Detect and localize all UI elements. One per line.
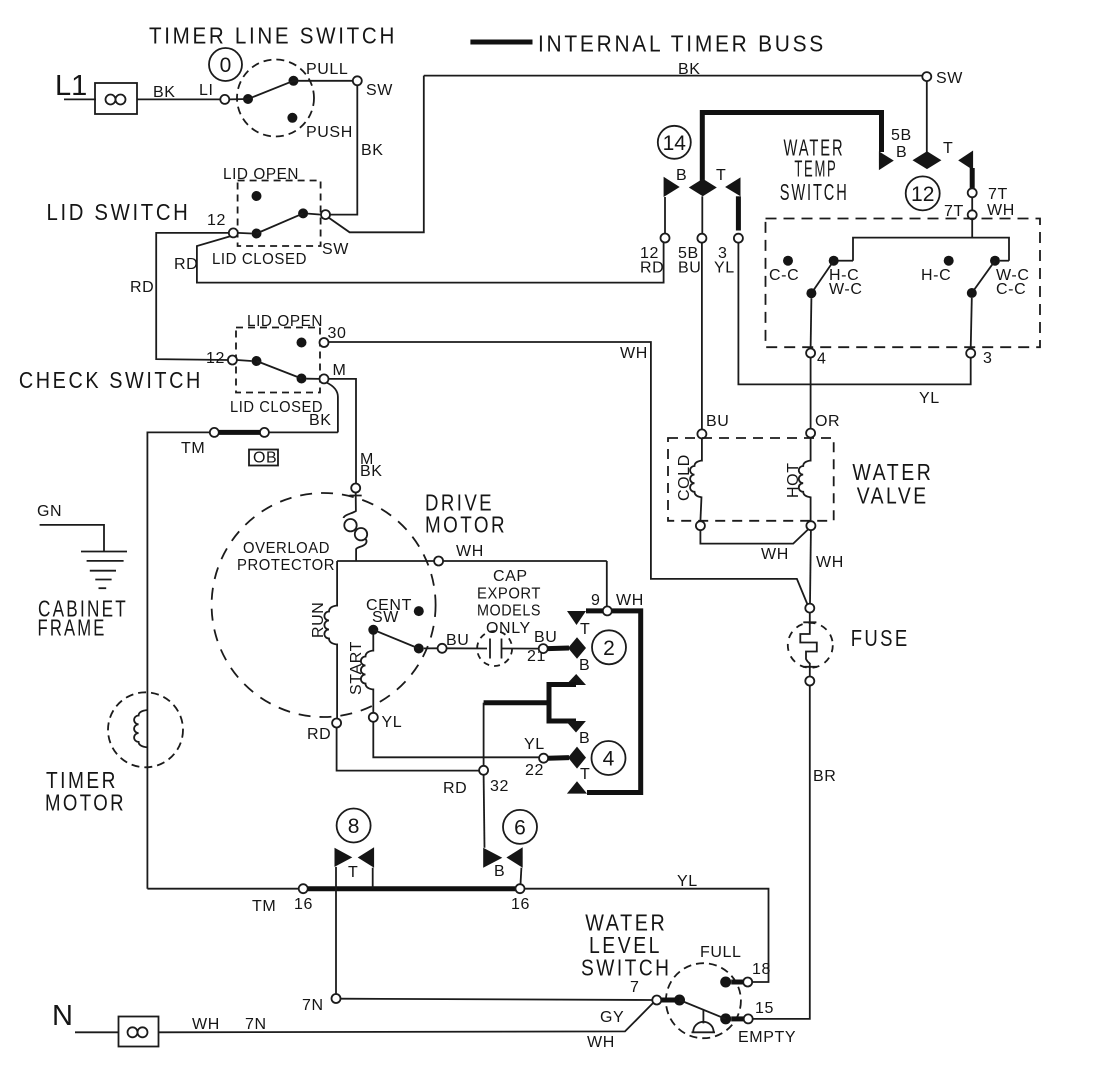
- node 22: [539, 754, 548, 763]
- label FUSE: [851, 625, 910, 651]
- label T conn12: [943, 140, 953, 157]
- svg-text:B: B: [676, 167, 687, 184]
- label RD left riser: [130, 279, 154, 296]
- label LID CLOSED (lid switch): [212, 251, 307, 268]
- svg-text:YL: YL: [919, 390, 940, 407]
- node M check switch: [320, 374, 329, 383]
- wire moving contact to SW node: [308, 214, 321, 215]
- node LI: [220, 95, 229, 104]
- label WH 7T: [987, 202, 1015, 219]
- circled 4: [592, 741, 626, 775]
- lid switch dashed box: [238, 181, 321, 247]
- wire WH right side down to node 9: [606, 561, 608, 607]
- label 32: [490, 778, 509, 795]
- label LID OPEN (check switch): [247, 313, 323, 330]
- svg-text:BU: BU: [706, 413, 729, 430]
- wire right bottom contact to node 3: [971, 298, 972, 349]
- water temp left switch arm: [811, 261, 833, 294]
- wire HOT coil to bottom node: [810, 497, 812, 522]
- svg-text:M: M: [333, 362, 347, 379]
- svg-text:12: 12: [207, 212, 226, 229]
- wire conn14 pin 5B lead: [701, 196, 703, 233]
- svg-text:22: 22: [525, 762, 544, 779]
- label 7: [630, 979, 640, 996]
- node 5B BU conn14: [697, 234, 706, 243]
- node 7N: [332, 994, 341, 1003]
- label WH (check switch wire): [620, 345, 648, 362]
- label SW (lid switch): [322, 241, 349, 258]
- svg-text:MOTOR: MOTOR: [425, 512, 507, 538]
- wire N lead: [75, 1031, 119, 1033]
- svg-text:7N: 7N: [302, 997, 324, 1014]
- wire node 4 to water valve OR: [810, 358, 812, 429]
- node BU water valve: [697, 429, 706, 438]
- label OVERLOAD PROTECTOR: [237, 540, 335, 574]
- wire top wire stub to right switch contact: [1000, 260, 1009, 262]
- wire BK from plug to node LI: [137, 98, 220, 100]
- svg-text:BK: BK: [309, 412, 332, 429]
- wire TM horizontal: [147, 432, 338, 888]
- title WATER LEVEL SWITCH: [581, 910, 672, 981]
- node WH motor top: [434, 557, 443, 566]
- node BU capacitor left: [438, 644, 447, 653]
- label 7T upper: [988, 186, 1008, 203]
- node water valve bottom right: [806, 521, 815, 530]
- label YL motor: [382, 714, 403, 731]
- svg-text:SWITCH: SWITCH: [780, 179, 849, 205]
- water temp inner top wire: [853, 238, 1009, 261]
- label 3: [983, 350, 993, 367]
- svg-text:7: 7: [630, 979, 640, 996]
- label BR: [813, 768, 836, 785]
- svg-text:5B: 5B: [891, 127, 912, 144]
- label T connector 2: [580, 621, 590, 638]
- node 12 lid switch: [229, 228, 238, 237]
- svg-text:BR: BR: [813, 768, 836, 785]
- water valve dashed box: [668, 438, 834, 521]
- legend text INTERNAL TIMER BUSS: [538, 31, 826, 57]
- label B connector 2: [579, 657, 590, 674]
- water temp left switch bottom contact: [806, 288, 816, 298]
- wire BU node to capacitor: [447, 647, 487, 649]
- thick buss node16L to node16R: [308, 886, 516, 891]
- CENT SW arm: [373, 630, 419, 649]
- timer motor dashed circle: [108, 692, 183, 767]
- connector 8 right triangle: [358, 847, 374, 867]
- wire COLD coil to bottom node: [700, 497, 701, 522]
- svg-text:WH: WH: [620, 345, 648, 362]
- svg-text:TEMP: TEMP: [794, 156, 837, 182]
- svg-text:RD: RD: [307, 726, 331, 743]
- wire GY node 7N to node 7: [341, 999, 653, 1000]
- wire moving contact to node M: [307, 378, 320, 380]
- wire RD lid node12 diagonal to conn14 pin12: [197, 236, 664, 282]
- wire conn14 pin 3 lead (thick): [736, 196, 741, 230]
- label T connector 8: [348, 864, 358, 881]
- wire WH 7N bottom run: [159, 1003, 653, 1032]
- wire OR node into HOT coil: [810, 438, 812, 462]
- svg-text:12: 12: [206, 350, 225, 367]
- svg-text:W-C: W-C: [829, 281, 863, 298]
- node 16 left: [299, 884, 308, 893]
- svg-text:16: 16: [511, 896, 530, 913]
- label 7N: [302, 997, 324, 1014]
- label BK: [153, 84, 176, 101]
- wire left bottom contact to node 4: [810, 298, 813, 348]
- node M-BK: [351, 484, 360, 493]
- label 7N bottom: [245, 1016, 267, 1033]
- label LID CLOSED check switch: [230, 399, 323, 416]
- RUN winding coil: [324, 606, 337, 645]
- connector 12 right triangle T: [958, 151, 973, 171]
- svg-text:T: T: [580, 766, 590, 783]
- connector plug N (box with two circles): [119, 1017, 159, 1047]
- svg-text:PUSH: PUSH: [306, 124, 353, 141]
- ground cabinet frame: [81, 552, 127, 589]
- wire L1 lead: [64, 98, 96, 100]
- label PUSH: [306, 124, 353, 141]
- svg-text:2: 2: [603, 637, 615, 660]
- node fuse top: [805, 604, 814, 613]
- label BK under lid closed: [309, 412, 332, 429]
- wire check node12 to common: [237, 360, 252, 361]
- connector 8 left triangle: [335, 848, 353, 867]
- node 12 check switch: [228, 356, 237, 365]
- node 7: [652, 996, 661, 1005]
- svg-text:YL: YL: [524, 736, 545, 753]
- HOT solenoid coil: [799, 461, 811, 498]
- svg-text:N: N: [52, 1000, 73, 1032]
- water temp switch dashed box: [766, 219, 1041, 348]
- title WATER VALVE: [852, 459, 933, 509]
- CENT SW pivot contact: [368, 625, 378, 635]
- node YL motor: [369, 713, 378, 722]
- wire 7T into water temp switch: [971, 219, 973, 237]
- wire node 32 to bracket: [483, 703, 485, 766]
- capacitor plates: [490, 639, 502, 659]
- svg-text:T: T: [348, 864, 358, 881]
- label WH near water level: [587, 1034, 615, 1051]
- wire LI node to pivot: [229, 98, 248, 100]
- connector 4 diamond: [568, 747, 586, 769]
- label T connector 14: [716, 167, 726, 184]
- label YL connector 4: [524, 736, 545, 753]
- lid switch common contact: [252, 229, 262, 239]
- svg-text:CAP: CAP: [493, 568, 528, 585]
- svg-text:BU: BU: [678, 260, 701, 277]
- node 15: [744, 1014, 753, 1023]
- wire CENT SW pivot down to START coil: [372, 635, 374, 652]
- title CABINET FRAME: [38, 596, 129, 641]
- svg-text:WH: WH: [616, 592, 644, 609]
- svg-text:9: 9: [591, 592, 601, 609]
- node 3 YL conn14: [734, 234, 743, 243]
- label BU water valve: [706, 413, 729, 430]
- svg-text:YL: YL: [714, 260, 735, 277]
- wire between 7T nodes: [971, 197, 973, 210]
- water level pivot contact: [674, 995, 685, 1006]
- wire BK from SW down to lid switch: [330, 85, 357, 214]
- lid switch moving contact: [298, 208, 308, 218]
- svg-text:32: 32: [490, 778, 509, 795]
- contact C-C: [783, 256, 793, 266]
- svg-text:BK: BK: [678, 61, 701, 78]
- label 21: [527, 648, 546, 665]
- svg-text:RUN: RUN: [310, 602, 327, 638]
- label BU left: [446, 632, 469, 649]
- node 18: [743, 978, 752, 987]
- svg-text:MOTOR: MOTOR: [45, 790, 126, 816]
- wire capacitor to node 21: [502, 648, 539, 650]
- node RD motor: [332, 719, 341, 728]
- label BK near arc: [360, 451, 374, 468]
- label T connector 4: [580, 766, 590, 783]
- label 7T lower: [944, 203, 964, 220]
- label 16 right: [511, 896, 530, 913]
- svg-text:0: 0: [220, 54, 232, 77]
- thick wire EMPTY contact to node 15: [731, 1016, 744, 1021]
- wire connector 6 left pin to node 32: [483, 775, 486, 848]
- node OB: [260, 428, 269, 437]
- label RD near 32: [443, 780, 467, 797]
- svg-text:B: B: [579, 657, 590, 674]
- title CHECK SWITCH: [19, 367, 203, 393]
- label W-C C-C: [996, 267, 1030, 298]
- water level EMPTY contact: [720, 1013, 731, 1024]
- label CAP EXPORT MODELS ONLY: [477, 568, 541, 637]
- label LI: [199, 82, 214, 99]
- wire node12 to common: [238, 232, 252, 235]
- svg-text:FRAME: FRAME: [38, 615, 107, 641]
- switch arm pivot to PULL: [248, 81, 294, 99]
- svg-text:B: B: [896, 144, 907, 161]
- svg-text:GY: GY: [600, 1009, 624, 1026]
- terminal L1 label: [55, 70, 87, 102]
- label B connector 14: [676, 167, 687, 184]
- svg-text:18: 18: [752, 961, 771, 978]
- label EMPTY: [738, 1029, 796, 1046]
- circled 0 timer cam: [209, 48, 242, 81]
- label RUN (rotated): [310, 602, 327, 638]
- timer line switch pivot contact: [243, 94, 253, 104]
- wire arc node M to timer OB wire: [327, 383, 338, 433]
- thick internal timer buss top right: [702, 113, 881, 182]
- svg-text:MODELS: MODELS: [477, 603, 541, 620]
- label BU right: [534, 629, 557, 646]
- circled 2: [592, 630, 626, 664]
- node 32: [479, 766, 488, 775]
- label 16 left: [294, 896, 313, 913]
- wire conn14 pin 12 lead: [664, 197, 666, 234]
- title TIMER LINE SWITCH: [149, 23, 397, 49]
- label 3 YL: [714, 245, 735, 277]
- check switch arm: [257, 361, 302, 379]
- svg-text:T: T: [580, 621, 590, 638]
- svg-text:SW: SW: [322, 241, 349, 258]
- label BK vertical wire: [361, 142, 384, 159]
- node OR water valve: [806, 429, 815, 438]
- check switch LID OPEN contact: [297, 338, 307, 348]
- label WH node 9: [616, 592, 644, 609]
- wire YL node to node 22: [373, 722, 538, 758]
- label FULL: [700, 944, 742, 961]
- circled 8: [337, 809, 371, 843]
- node 9: [603, 606, 612, 615]
- label LID OPEN (lid switch): [223, 166, 299, 183]
- node SW timer line switch: [353, 76, 362, 85]
- svg-text:15: 15: [755, 1000, 774, 1017]
- wire lid SW node to BK riser: [329, 76, 424, 233]
- thick buss TM to OB: [219, 430, 260, 435]
- title LID SWITCH: [47, 199, 191, 225]
- label CENT SW: [366, 597, 412, 626]
- svg-text:BK: BK: [153, 84, 176, 101]
- label SW top right: [936, 70, 963, 87]
- label BK under M: [360, 463, 383, 480]
- node SW lid switch: [321, 210, 330, 219]
- label OB boxed: [249, 450, 278, 467]
- svg-text:OB: OB: [253, 450, 277, 467]
- COLD solenoid coil: [690, 461, 702, 498]
- svg-text:START: START: [348, 641, 365, 695]
- legend thick line INTERNAL TIMER BUSS: [470, 40, 532, 45]
- bottom bus wire right segment YL: [525, 889, 769, 982]
- title DRIVE MOTOR: [425, 490, 507, 538]
- wire RUN coil to node RD: [336, 644, 338, 719]
- wire top wire stub to left switch contact: [838, 260, 853, 262]
- node 4 water temp: [806, 349, 815, 358]
- thick wire FULL contact to node 18: [731, 980, 743, 985]
- wire RD lid node12 to check switch (left riser): [156, 233, 229, 360]
- wire YL conn14 to water temp node 3: [738, 243, 970, 385]
- svg-text:WATER: WATER: [852, 459, 933, 485]
- svg-text:VALVE: VALVE: [857, 483, 929, 509]
- connector plug L1 (box with two circles): [95, 83, 137, 114]
- circled 14: [658, 126, 691, 159]
- svg-text:B: B: [494, 863, 505, 880]
- label SW: [366, 82, 393, 99]
- contact W-C C-C top: [990, 256, 1000, 266]
- svg-text:RD: RD: [443, 780, 467, 797]
- circled 12: [906, 176, 940, 210]
- connector 2 diamond: [568, 637, 586, 659]
- label 18: [752, 961, 771, 978]
- svg-text:RD: RD: [174, 256, 198, 273]
- label RD motor: [307, 726, 331, 743]
- svg-text:7N: 7N: [245, 1016, 267, 1033]
- svg-text:SWITCH: SWITCH: [581, 954, 672, 980]
- label COLD (rotated): [676, 454, 693, 501]
- label 22: [525, 762, 544, 779]
- label PULL: [306, 61, 348, 78]
- label C-C: [769, 267, 799, 284]
- svg-text:WH: WH: [587, 1034, 615, 1051]
- svg-text:OVERLOAD: OVERLOAD: [243, 540, 330, 557]
- node 12 RD conn14: [661, 234, 670, 243]
- top bus wire BK: [424, 75, 923, 77]
- svg-text:SW: SW: [936, 70, 963, 87]
- label WH valve bottom: [761, 546, 789, 563]
- CENT SW upper contact: [414, 606, 424, 616]
- svg-text:BU: BU: [446, 632, 469, 649]
- node SW top right: [922, 72, 931, 81]
- overload protector heater squiggle: [344, 493, 368, 561]
- svg-text:7T: 7T: [944, 203, 964, 220]
- svg-text:C-C: C-C: [769, 267, 799, 284]
- label M: [333, 362, 347, 379]
- svg-text:TM: TM: [252, 898, 276, 915]
- svg-text:TIMER LINE SWITCH: TIMER LINE SWITCH: [149, 23, 397, 49]
- circled 6: [503, 810, 537, 844]
- svg-text:SW: SW: [366, 82, 393, 99]
- label HOT (rotated): [785, 462, 802, 498]
- label OR water valve: [815, 413, 840, 430]
- svg-text:WH: WH: [761, 546, 789, 563]
- wire GN to ground: [40, 525, 104, 552]
- timer motor coil: [134, 710, 147, 747]
- svg-text:SW: SW: [372, 609, 399, 626]
- check switch common contact: [252, 356, 262, 366]
- water temp right switch bottom contact: [967, 288, 977, 298]
- terminal N label: [52, 1000, 73, 1032]
- contact H-C W-C top: [829, 256, 839, 266]
- node 3 water temp: [966, 349, 975, 358]
- connector 2 top triangle T: [567, 611, 586, 625]
- svg-text:L1: L1: [55, 70, 87, 102]
- wire motor top horizontal WH: [337, 560, 607, 562]
- node 7T upper: [968, 188, 977, 197]
- wire left side down to RUN coil: [336, 561, 338, 607]
- svg-text:B: B: [579, 730, 590, 747]
- label WH motor top: [456, 543, 484, 560]
- svg-text:BK: BK: [361, 142, 384, 159]
- svg-text:PROTECTOR: PROTECTOR: [237, 557, 335, 574]
- svg-text:BK: BK: [360, 463, 383, 480]
- wire connector 8 right pin to bus: [372, 868, 374, 889]
- svg-text:T: T: [943, 140, 953, 157]
- label H-C W-C: [829, 267, 863, 298]
- svg-text:PULL: PULL: [306, 61, 348, 78]
- wire WH water valve bottom: [700, 530, 808, 544]
- wire BR fuse to water level switch: [753, 686, 810, 1019]
- svg-text:WH: WH: [816, 554, 844, 571]
- node fuse bottom: [805, 677, 814, 686]
- svg-text:INTERNAL TIMER BUSS: INTERNAL TIMER BUSS: [538, 31, 826, 57]
- label WH bottom: [192, 1016, 220, 1033]
- label B connector 4: [579, 730, 590, 747]
- svg-text:12: 12: [911, 183, 934, 206]
- wire BU conn14 to water valve BU: [701, 243, 703, 429]
- wire SW node down to conn12 diamond: [926, 81, 928, 152]
- label GY: [600, 1009, 624, 1026]
- svg-text:GN: GN: [37, 503, 62, 520]
- svg-text:30: 30: [328, 325, 347, 342]
- thick wire conn12 right triangle to node 7T: [970, 168, 975, 188]
- wire OR bottom node down to fuse junction: [809, 530, 812, 604]
- connector 2 bottom triangle B: [566, 674, 586, 685]
- label TM: [181, 440, 205, 457]
- svg-text:FUSE: FUSE: [851, 625, 910, 651]
- svg-text:16: 16: [294, 896, 313, 913]
- wire RD node to node 32: [337, 728, 479, 771]
- capacitor CAP dashed circle: [477, 631, 512, 666]
- svg-text:WH: WH: [456, 543, 484, 560]
- label 15: [755, 1000, 774, 1017]
- wire START coil to node YL: [372, 689, 374, 713]
- water level pendulum: [692, 1010, 716, 1033]
- wire BU node into COLD coil: [701, 438, 703, 461]
- svg-text:6: 6: [514, 817, 526, 840]
